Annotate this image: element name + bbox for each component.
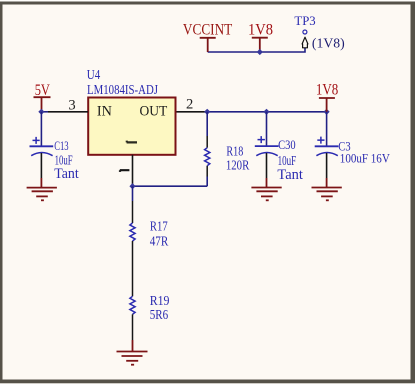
wire R19 to ground bbox=[132, 314, 134, 340]
curved plate bbox=[31, 153, 52, 156]
ground below C13 bbox=[27, 178, 57, 200]
svg-text:R19: R19 bbox=[150, 293, 170, 308]
resistor R17 bbox=[130, 218, 168, 248]
zigzag bbox=[205, 148, 210, 166]
wire top rail to TP3 bbox=[208, 48, 305, 52]
pin number dash (rotated 1) bbox=[120, 170, 130, 172]
plus sign bbox=[33, 137, 40, 144]
junction node 5V/pin3 bbox=[38, 109, 44, 115]
svg-text:U4: U4 bbox=[87, 67, 101, 82]
resistor R19 bbox=[130, 293, 170, 322]
upper pin bbox=[206, 112, 208, 136]
wire 5V node bbox=[42, 111, 49, 113]
power port 1V8 (top bar) bbox=[252, 38, 268, 52]
capacitor C30 bbox=[255, 112, 303, 183]
power port 1V8 right (bar) bbox=[319, 98, 335, 112]
svg-text:LM1084IS-ADJ: LM1084IS-ADJ bbox=[87, 82, 158, 97]
svg-text:1V8: 1V8 bbox=[316, 81, 338, 98]
junction at R18 bbox=[204, 109, 210, 115]
window frame left bbox=[0, 2, 3, 384]
pin 1 wire (ADJ) bbox=[132, 155, 134, 186]
svg-text:VCCINT: VCCINT bbox=[183, 21, 233, 38]
pin 3 wire (IN) bbox=[48, 111, 88, 113]
svg-text:IN: IN bbox=[97, 104, 112, 120]
wire between R17 and R19 bbox=[132, 241, 134, 296]
svg-text:Tant: Tant bbox=[54, 166, 78, 182]
svg-text:(1V8): (1V8) bbox=[312, 35, 345, 50]
lower pin bbox=[206, 166, 208, 177]
junction ADJ bbox=[129, 183, 135, 189]
wire OUT rail bbox=[207, 111, 326, 113]
junction at C30 bbox=[263, 109, 269, 115]
pin 2 wire (OUT) bbox=[177, 111, 208, 113]
svg-text:Tant: Tant bbox=[277, 167, 303, 183]
svg-text:5R6: 5R6 bbox=[150, 307, 169, 322]
svg-text:3: 3 bbox=[68, 97, 75, 113]
pin bbox=[40, 153, 42, 178]
resistor R18 bbox=[205, 112, 250, 186]
wire ADJ down bbox=[132, 186, 134, 201]
wire ADJ node horizontal bbox=[133, 185, 208, 187]
svg-text:TP3: TP3 bbox=[294, 13, 315, 28]
power port 5V (bar) bbox=[34, 97, 51, 112]
svg-text:OUT: OUT bbox=[140, 104, 168, 120]
power port VCCINT (bar) bbox=[200, 38, 216, 52]
svg-text:2: 2 bbox=[186, 96, 193, 112]
svg-text:47R: 47R bbox=[150, 233, 169, 248]
TP3 probe symbol bbox=[302, 37, 308, 48]
svg-text:120R: 120R bbox=[226, 157, 249, 172]
window frame bottom bbox=[0, 380, 415, 384]
ground below C3 bbox=[312, 178, 342, 200]
pin name dash (ADJ) inside body bbox=[127, 141, 137, 143]
svg-text:100uF 16V: 100uF 16V bbox=[340, 151, 391, 166]
svg-text:C13: C13 bbox=[54, 139, 68, 153]
junction at 1V8 stem bbox=[257, 49, 263, 55]
top plate bbox=[30, 145, 54, 147]
regulator U4 body bbox=[88, 98, 175, 155]
window frame top bbox=[0, 2, 415, 5]
TP3 pad circle bbox=[303, 30, 307, 34]
ground below C30 bbox=[251, 178, 281, 200]
svg-text:1V8: 1V8 bbox=[248, 21, 273, 38]
capacitor C3 bbox=[315, 112, 391, 178]
window frame right bbox=[411, 2, 415, 384]
svg-text:R18: R18 bbox=[226, 143, 243, 158]
junction at C3/1V8 bbox=[324, 109, 330, 115]
svg-text:C30: C30 bbox=[278, 138, 296, 152]
svg-text:R17: R17 bbox=[150, 218, 168, 233]
ground below R19 bbox=[117, 340, 148, 365]
capacitor C13 bbox=[30, 112, 79, 182]
wire from node bbox=[40, 112, 42, 147]
